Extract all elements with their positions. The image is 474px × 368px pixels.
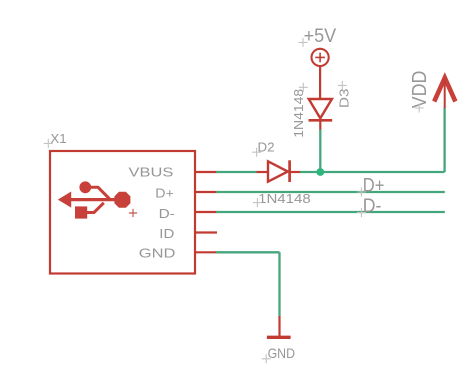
origin cross +5V [299, 38, 308, 47]
ground symbol [267, 316, 291, 338]
origin cross VDD [415, 104, 424, 113]
supply VDD arrow [434, 78, 455, 109]
USB symbol [59, 182, 130, 218]
pin stub D+ [195, 191, 217, 193]
wire D- net [216, 211, 445, 213]
upper branch [89, 187, 110, 199]
diode D3 [309, 99, 333, 130]
origin cross net D+ [357, 188, 366, 197]
svg-text:1N4148: 1N4148 [258, 191, 311, 206]
pin stub GND [195, 251, 217, 253]
big node circle [115, 192, 130, 207]
wire vertical up to VDD [443, 108, 445, 173]
pin stub D- [195, 211, 217, 213]
origin cross D3 [338, 81, 347, 90]
wire GND vertical [278, 252, 280, 315]
svg-text:D+: D+ [155, 186, 174, 201]
origin cross GND [262, 354, 271, 363]
pin stub ID [195, 231, 217, 233]
arrow head [59, 193, 71, 207]
wire D2 cathode to VDD corner [300, 171, 445, 173]
wire D3 cathode to junction [319, 129, 321, 172]
svg-text:D+: D+ [363, 174, 385, 196]
small node circle [80, 182, 91, 193]
diode D2 [257, 160, 301, 182]
supply +5V symbol [312, 49, 329, 99]
svg-text:ID: ID [159, 226, 174, 241]
origin cross 1N4148 D3 [299, 83, 308, 92]
svg-text:D-: D- [363, 195, 382, 217]
svg-text:GND: GND [139, 246, 176, 261]
wire GND horizontal [216, 251, 280, 253]
svg-text:GND: GND [268, 345, 295, 361]
pin stub VBUS [195, 171, 217, 173]
svg-text:D3: D3 [337, 89, 352, 108]
connector X1 body [50, 151, 195, 274]
svg-text:+5V: +5V [304, 25, 337, 47]
svg-text:VDD: VDD [408, 71, 431, 109]
origin cross D2 [252, 148, 261, 157]
origin cross net D- [357, 208, 366, 217]
wire D+ net [216, 191, 445, 193]
svg-text:X1: X1 [50, 131, 66, 146]
origin cross X1 [44, 139, 53, 148]
svg-text:1N4148: 1N4148 [291, 89, 306, 138]
wire VBUS to D2 anode [216, 171, 257, 173]
svg-text:D-: D- [159, 206, 175, 221]
svg-text:VBUS: VBUS [129, 165, 174, 180]
main horizontal line [66, 198, 116, 201]
square node [76, 207, 87, 218]
junction dot [316, 168, 324, 176]
origin cross 1N4148 D2 [253, 198, 262, 207]
lower branch [87, 203, 104, 213]
red plus mark [129, 209, 137, 217]
